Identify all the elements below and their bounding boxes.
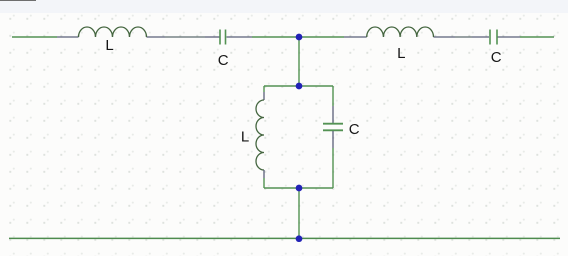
svg-text:C: C xyxy=(218,52,229,69)
svg-text:L: L xyxy=(397,45,405,62)
svg-text:L: L xyxy=(241,128,249,145)
svg-text:C: C xyxy=(491,49,502,66)
svg-text:C: C xyxy=(349,121,360,138)
svg-text:L: L xyxy=(105,37,113,54)
